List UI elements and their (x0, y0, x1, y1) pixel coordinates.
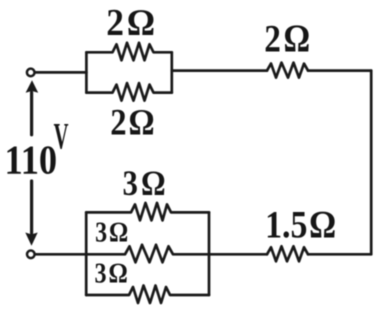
wire right vertical (370, 71, 373, 255)
svg-text:2Ω: 2Ω (106, 1, 154, 43)
resistor R3 2ohm series (267, 63, 308, 78)
svg-text:2Ω: 2Ω (110, 102, 154, 143)
resistor R2 2ohm bottom (86, 83, 171, 101)
wire bottom middle (209, 253, 267, 256)
terminal top-left (27, 69, 35, 77)
resistor R4 1.5ohm series (267, 246, 308, 261)
node box parallel 2-ohm right edge (170, 52, 173, 92)
wire top right (308, 69, 371, 72)
arrowhead up (26, 80, 39, 93)
wire bottom right (308, 253, 371, 256)
wire source arrow upper (30, 93, 33, 135)
resistor R5 3ohm top (86, 203, 209, 221)
node box parallel 2-ohm left edge (85, 52, 88, 92)
node box parallel 3-ohm left edge (85, 212, 88, 295)
svg-text:110: 110 (5, 137, 58, 183)
resistor R6 3ohm middle (86, 245, 209, 263)
arrowhead down (25, 233, 37, 246)
resistor R1 2ohm top (86, 43, 171, 61)
svg-text:2Ω: 2Ω (264, 16, 309, 60)
node box parallel 3-ohm right edge (208, 212, 211, 295)
wire top-left (35, 71, 86, 74)
resistor R7 3ohm bottom (86, 286, 209, 304)
terminal bottom-left (27, 251, 35, 259)
svg-text:V: V (54, 117, 69, 156)
wire source arrow lower (30, 181, 33, 233)
svg-text:3Ω: 3Ω (95, 217, 128, 248)
wire top middle (172, 69, 267, 72)
svg-text:3Ω: 3Ω (123, 164, 166, 203)
wire bottom left (35, 253, 86, 256)
svg-text:3Ω: 3Ω (95, 257, 128, 289)
svg-text:1.5Ω: 1.5Ω (265, 203, 336, 246)
